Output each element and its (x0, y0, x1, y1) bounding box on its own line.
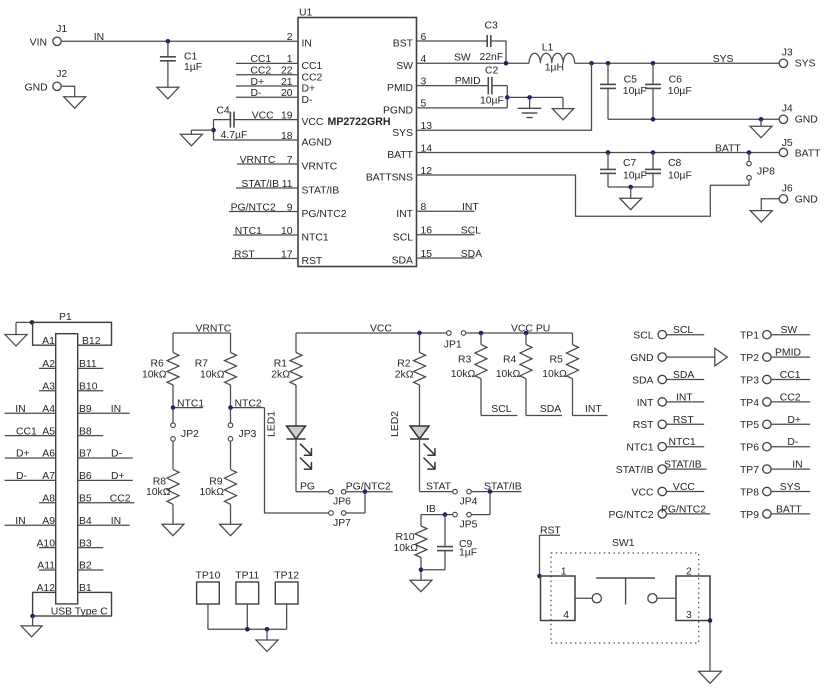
svg-text:2kΩ: 2kΩ (395, 370, 414, 381)
svg-text:J5: J5 (782, 138, 793, 149)
svg-text:10kΩ: 10kΩ (451, 369, 476, 380)
svg-text:10kΩ: 10kΩ (542, 369, 567, 380)
svg-text:10µF: 10µF (668, 86, 692, 97)
svg-text:3: 3 (686, 610, 692, 621)
svg-text:1: 1 (287, 54, 293, 65)
svg-text:D+: D+ (16, 449, 30, 460)
svg-text:D-: D- (787, 437, 798, 448)
svg-text:SW: SW (781, 325, 798, 336)
svg-text:J1: J1 (56, 24, 67, 35)
svg-text:J6: J6 (782, 184, 793, 195)
svg-text:GND: GND (630, 353, 653, 364)
svg-text:R9: R9 (209, 477, 223, 488)
svg-text:22: 22 (281, 66, 293, 77)
svg-text:PG/NTC2: PG/NTC2 (231, 202, 276, 213)
svg-text:B4: B4 (79, 516, 92, 527)
svg-text:CC2: CC2 (780, 392, 801, 403)
svg-text:SYS: SYS (780, 482, 801, 493)
svg-text:10µF: 10µF (480, 95, 504, 106)
svg-text:TP3: TP3 (740, 375, 759, 386)
svg-text:B5: B5 (79, 494, 92, 505)
svg-text:SDA: SDA (392, 256, 413, 267)
svg-text:IN: IN (15, 516, 25, 527)
svg-text:TP11: TP11 (235, 571, 259, 582)
svg-text:PMID: PMID (455, 76, 481, 87)
svg-text:VCC PU: VCC PU (511, 324, 550, 335)
svg-text:PGND: PGND (383, 106, 413, 117)
svg-text:D+: D+ (111, 471, 125, 482)
svg-text:B2: B2 (79, 561, 92, 572)
svg-text:JP6: JP6 (333, 496, 351, 507)
svg-text:RST: RST (633, 420, 654, 431)
svg-text:TP6: TP6 (740, 443, 759, 454)
svg-text:A1: A1 (42, 336, 55, 347)
svg-text:VCC: VCC (370, 324, 392, 335)
svg-text:D-: D- (251, 88, 262, 99)
svg-text:9: 9 (287, 202, 293, 213)
svg-text:18: 18 (281, 131, 293, 142)
svg-text:PMID: PMID (387, 83, 413, 94)
svg-text:D-: D- (302, 95, 313, 106)
svg-text:R1: R1 (274, 358, 288, 369)
svg-text:IN: IN (792, 460, 802, 471)
svg-text:CC1: CC1 (250, 54, 271, 65)
svg-text:NTC1: NTC1 (302, 233, 329, 244)
svg-text:R3: R3 (458, 354, 472, 365)
svg-text:STAT/IB: STAT/IB (616, 465, 654, 476)
svg-text:STAT/IB: STAT/IB (302, 186, 340, 197)
svg-text:VCC: VCC (252, 110, 274, 121)
svg-text:B8: B8 (79, 426, 92, 437)
svg-text:U1: U1 (299, 7, 313, 18)
svg-text:SW: SW (396, 61, 413, 72)
svg-text:JP3: JP3 (239, 429, 257, 440)
svg-text:STAT: STAT (426, 482, 452, 493)
svg-text:L1: L1 (542, 42, 554, 53)
svg-text:INT: INT (637, 398, 654, 409)
svg-text:GND: GND (795, 195, 818, 206)
svg-text:C7: C7 (623, 158, 637, 169)
svg-text:JP2: JP2 (181, 429, 199, 440)
svg-text:CC2: CC2 (250, 66, 271, 77)
svg-text:B10: B10 (79, 382, 98, 393)
svg-text:IN: IN (302, 39, 312, 50)
svg-text:PMID: PMID (775, 348, 801, 359)
svg-text:17: 17 (281, 249, 293, 260)
svg-text:BATTSNS: BATTSNS (366, 173, 413, 184)
svg-text:SCL: SCL (461, 226, 481, 237)
svg-text:PG/NTC2: PG/NTC2 (346, 482, 391, 493)
svg-text:7: 7 (287, 155, 293, 166)
svg-text:10kΩ: 10kΩ (200, 370, 225, 381)
svg-text:B1: B1 (79, 583, 92, 594)
svg-text:RST: RST (234, 249, 255, 260)
svg-text:1µH: 1µH (545, 63, 564, 74)
svg-text:R7: R7 (195, 358, 209, 369)
svg-text:SDA: SDA (673, 370, 694, 381)
svg-text:SDA: SDA (461, 249, 482, 260)
svg-text:PG: PG (300, 482, 315, 493)
svg-text:TP12: TP12 (274, 571, 299, 582)
svg-text:RST: RST (673, 415, 694, 426)
svg-text:D+: D+ (251, 77, 265, 88)
svg-text:BATT: BATT (776, 504, 802, 515)
svg-text:A11: A11 (37, 561, 55, 572)
svg-text:JP1: JP1 (444, 340, 462, 351)
svg-text:RST: RST (302, 256, 323, 267)
svg-text:JP5: JP5 (460, 519, 478, 530)
svg-text:SYS: SYS (713, 54, 734, 65)
svg-text:PG/NTC2: PG/NTC2 (608, 510, 653, 521)
svg-text:PG/NTC2: PG/NTC2 (302, 209, 347, 220)
svg-text:D-: D- (16, 471, 27, 482)
svg-text:A9: A9 (42, 516, 55, 527)
svg-text:LED1: LED1 (267, 411, 278, 437)
svg-text:R8: R8 (153, 477, 167, 488)
svg-text:20: 20 (281, 88, 293, 99)
svg-text:TP7: TP7 (740, 465, 759, 476)
svg-text:A4: A4 (42, 404, 55, 415)
svg-text:C1: C1 (184, 52, 198, 63)
svg-text:SCL: SCL (673, 325, 693, 336)
svg-text:C3: C3 (485, 21, 499, 32)
svg-text:INT: INT (462, 202, 479, 213)
svg-text:B9: B9 (79, 404, 92, 415)
svg-text:J2: J2 (56, 69, 67, 80)
svg-text:B7: B7 (79, 449, 92, 460)
svg-text:4.7µF: 4.7µF (221, 130, 248, 141)
svg-text:INT: INT (585, 404, 602, 415)
svg-text:IN: IN (94, 32, 104, 43)
svg-text:TP4: TP4 (740, 398, 759, 409)
svg-text:TP10: TP10 (196, 571, 221, 582)
svg-text:A6: A6 (42, 449, 55, 460)
svg-text:21: 21 (281, 77, 293, 88)
svg-text:SDA: SDA (540, 404, 561, 415)
svg-text:10kΩ: 10kΩ (393, 543, 418, 554)
svg-text:IN: IN (15, 404, 25, 415)
svg-text:10kΩ: 10kΩ (496, 369, 521, 380)
svg-text:A12: A12 (37, 583, 56, 594)
svg-text:VRNTC: VRNTC (302, 162, 338, 173)
svg-text:4: 4 (563, 610, 569, 621)
svg-text:TP2: TP2 (740, 353, 759, 364)
svg-text:STAT/IB: STAT/IB (664, 460, 702, 471)
svg-text:2: 2 (686, 567, 692, 578)
svg-text:NTC1: NTC1 (235, 226, 262, 237)
svg-text:10µF: 10µF (668, 170, 692, 181)
svg-text:C4: C4 (216, 106, 230, 117)
svg-text:IN: IN (111, 516, 121, 527)
svg-text:D+: D+ (787, 415, 801, 426)
svg-text:C5: C5 (624, 74, 638, 85)
svg-text:SW1: SW1 (612, 538, 635, 549)
svg-text:SW: SW (454, 52, 471, 63)
svg-text:LED2: LED2 (390, 411, 401, 437)
svg-text:10kΩ: 10kΩ (142, 370, 167, 381)
svg-text:JP8: JP8 (757, 167, 775, 178)
svg-text:R2: R2 (397, 358, 411, 369)
svg-text:GND: GND (25, 82, 48, 93)
svg-text:1: 1 (561, 567, 567, 578)
svg-text:VCC: VCC (673, 482, 695, 493)
svg-text:B3: B3 (79, 538, 92, 549)
svg-text:CC2: CC2 (110, 494, 131, 505)
svg-text:C8: C8 (668, 158, 682, 169)
svg-text:VIN: VIN (30, 37, 47, 48)
svg-text:A7: A7 (42, 471, 55, 482)
svg-text:TP1: TP1 (740, 331, 759, 342)
svg-text:1µF: 1µF (184, 62, 202, 73)
svg-text:10µF: 10µF (623, 170, 647, 181)
svg-text:11: 11 (282, 179, 293, 190)
svg-text:PG/NTC2: PG/NTC2 (661, 504, 706, 515)
svg-text:10kΩ: 10kΩ (146, 487, 171, 498)
svg-text:IB: IB (426, 504, 436, 515)
svg-text:CC1: CC1 (16, 426, 37, 437)
svg-text:NTC1: NTC1 (669, 437, 696, 448)
svg-text:VRNTC: VRNTC (240, 155, 276, 166)
svg-text:SCL: SCL (633, 331, 653, 342)
svg-text:BST: BST (393, 39, 414, 50)
svg-text:CC1: CC1 (780, 370, 801, 381)
svg-text:R5: R5 (550, 354, 564, 365)
svg-text:VRNTC: VRNTC (196, 324, 232, 335)
svg-text:GND: GND (795, 115, 818, 126)
svg-text:J4: J4 (782, 104, 793, 115)
svg-text:A8: A8 (42, 494, 55, 505)
svg-text:INT: INT (396, 209, 413, 220)
svg-text:A10: A10 (37, 538, 56, 549)
svg-text:B12: B12 (82, 336, 101, 347)
svg-text:CC2: CC2 (302, 72, 323, 83)
svg-text:SDA: SDA (632, 375, 653, 386)
svg-text:BATT: BATT (795, 149, 821, 160)
svg-text:SCL: SCL (393, 232, 413, 243)
svg-text:SCL: SCL (491, 404, 511, 415)
svg-text:INT: INT (676, 392, 693, 403)
svg-text:2kΩ: 2kΩ (271, 370, 290, 381)
svg-text:CC1: CC1 (302, 61, 323, 72)
svg-text:SYS: SYS (795, 59, 816, 70)
svg-text:R4: R4 (503, 354, 517, 365)
svg-text:B6: B6 (79, 471, 92, 482)
svg-text:JP7: JP7 (333, 518, 351, 529)
svg-text:TP8: TP8 (740, 487, 759, 498)
svg-text:C6: C6 (669, 74, 683, 85)
svg-text:C2: C2 (485, 66, 499, 77)
svg-text:10kΩ: 10kΩ (199, 487, 224, 498)
svg-text:NTC1: NTC1 (626, 443, 653, 454)
svg-text:JP4: JP4 (460, 497, 478, 508)
svg-text:B11: B11 (79, 359, 97, 370)
svg-text:STAT/IB: STAT/IB (241, 179, 279, 190)
svg-text:P1: P1 (59, 312, 72, 323)
svg-text:19: 19 (281, 110, 293, 121)
svg-text:IN: IN (111, 404, 121, 415)
svg-text:10µF: 10µF (623, 86, 647, 97)
svg-text:R10: R10 (395, 532, 414, 543)
svg-text:D+: D+ (302, 84, 316, 95)
svg-text:AGND: AGND (302, 138, 332, 149)
svg-text:BATT: BATT (387, 150, 413, 161)
svg-text:A2: A2 (42, 359, 55, 370)
svg-text:22nF: 22nF (480, 52, 504, 63)
svg-text:BATT: BATT (715, 143, 741, 154)
svg-text:MP2722GRH: MP2722GRH (328, 116, 391, 128)
svg-text:TP9: TP9 (740, 510, 759, 521)
svg-text:R6: R6 (151, 358, 165, 369)
svg-text:SYS: SYS (392, 128, 413, 139)
svg-text:J3: J3 (782, 48, 793, 59)
svg-text:1µF: 1µF (459, 548, 477, 559)
svg-text:TP5: TP5 (740, 420, 759, 431)
svg-text:USB Type C: USB Type C (51, 607, 108, 618)
svg-text:D-: D- (111, 449, 122, 460)
svg-text:2: 2 (287, 32, 293, 43)
svg-text:A3: A3 (42, 382, 55, 393)
svg-text:10: 10 (281, 226, 293, 237)
svg-text:VCC: VCC (302, 117, 324, 128)
svg-text:A5: A5 (42, 426, 55, 437)
svg-text:VCC: VCC (632, 487, 654, 498)
